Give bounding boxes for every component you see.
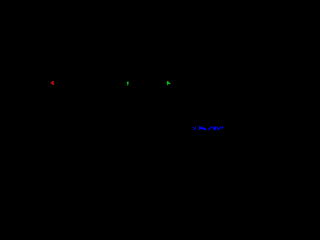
letter W zigzag	[217, 127, 220, 130]
blue signature bottom right, pixel-mapped	[193, 126, 206, 130]
green star/dot right	[166, 81, 171, 86]
letter R leg	[214, 129, 215, 130]
letter R block	[213, 127, 216, 130]
red star/dot	[50, 81, 55, 86]
word: J stem	[199, 127, 200, 130]
black background	[0, 0, 225, 135]
word: J top bar	[199, 126, 201, 127]
word: right lower band	[203, 128, 206, 130]
slash	[208, 126, 212, 129]
final flick	[221, 127, 223, 129]
letter X	[193, 127, 194, 128]
green star/dot left	[127, 81, 130, 86]
flick dot	[222, 127, 224, 129]
word: bottom right nub	[205, 129, 206, 130]
word: main band	[200, 127, 204, 129]
